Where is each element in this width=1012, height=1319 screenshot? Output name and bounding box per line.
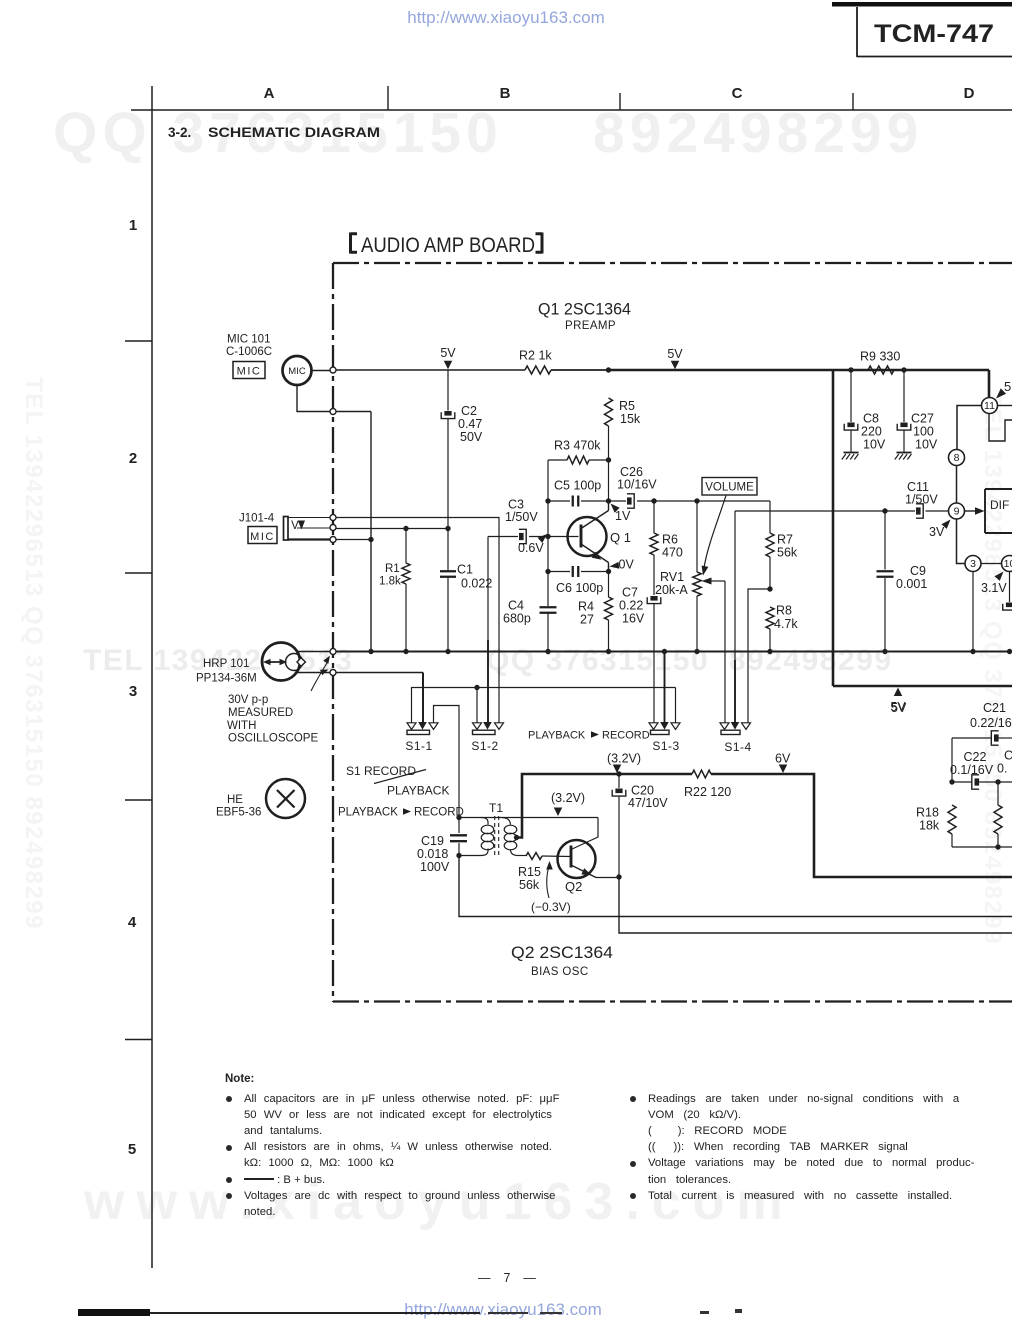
svg-text:C1: C1 [457,563,473,577]
svg-text:2: 2 [129,450,137,467]
svg-text:R22 120: R22 120 [684,785,731,799]
capacitor C27 (electrolytic) [903,370,905,422]
svg-text:(3.2V): (3.2V) [607,752,641,766]
svg-text:R7: R7 [777,533,793,547]
svg-text:MIC: MIC [237,366,262,378]
wire 5V rail from mic node to R2 [333,369,525,371]
junction bus/ground leg [368,649,373,654]
watermark QQ middle [486,644,893,678]
svg-text:0.1/16V: 0.1/16V [950,763,994,777]
connector pin 8 [949,450,965,466]
svg-text:1/50V: 1/50V [905,493,938,507]
capacitor C20 (electrolytic) [618,774,620,788]
svg-text:MIC: MIC [288,366,306,377]
resistor R15 [518,855,526,857]
svg-text:RV1: RV1 [660,570,684,584]
svg-text:Q1 2SC1364: Q1 2SC1364 [538,300,631,319]
svg-text:0V: 0V [619,558,635,572]
svg-text:MIC 101: MIC 101 [227,334,270,346]
svg-text:3: 3 [970,558,976,570]
svg-text:Q2 2SC1364: Q2 2SC1364 [511,943,613,962]
svg-text:3V: 3V [929,525,945,539]
wire C20 bottom rail [619,877,1012,933]
svg-text:S1-3: S1-3 [652,739,679,753]
svg-text:AUDIO AMP BOARD: AUDIO AMP BOARD [361,234,535,257]
capacitor C11 (electrolytic) [885,510,915,512]
svg-text:220: 220 [861,425,882,439]
microphone MIC101 symbol [283,356,312,385]
junction bus/pin3 [970,649,975,654]
svg-text:16V: 16V [622,612,645,626]
jack J101-4 symbol [284,517,289,541]
RV1 wiper arrow [702,578,712,585]
svg-text:15k: 15k [620,412,641,426]
svg-text:3: 3 [129,683,137,700]
label box MIC (mic101) [233,362,265,379]
svg-text:V: V [291,520,299,532]
svg-text:56k: 56k [519,878,540,892]
ruler tick A/B [387,86,389,110]
wire ground leg x371 [370,412,372,652]
junction C6 left [545,569,550,574]
svg-text:0.6V: 0.6V [518,541,544,555]
wire jack sleeve to ground leg [336,539,371,541]
blue url bottom [404,1300,601,1319]
wire base bias leg x548 [547,460,549,606]
svg-text:5V: 5V [891,701,907,715]
svg-text:1V: 1V [615,509,631,523]
svg-text:C22: C22 [964,750,987,764]
svg-text:R18: R18 [916,806,939,820]
watermark QQ numbers top right part [593,100,923,166]
junction bus/C4 [545,649,550,654]
leader 30V p-p [311,663,327,691]
connector pin 10 [1002,556,1012,572]
junction bus/C9 [882,649,887,654]
svg-text:4: 4 [128,914,137,931]
wire R8 junction to S1-4 right [748,589,770,723]
wire pin9 to pin3 [957,519,966,564]
wire mic return into board to x371 [336,411,371,413]
svg-text:Q 1: Q 1 [610,530,631,545]
earphone HRP101 symbol [262,643,300,681]
wire S1-3 right stem [675,688,677,723]
capacitor C19 [458,818,460,834]
ruler tick row2/3 [125,572,152,574]
svg-text:50V: 50V [460,430,483,444]
svg-text:11: 11 [984,400,995,412]
wire pin3 to bus [972,572,974,652]
capacitor C26 (electrolytic) [609,500,627,502]
junction C9 top [882,508,887,513]
wire B+ 3.2V heavy from tap [517,774,693,838]
svg-text:RECORD: RECORD [414,807,464,819]
junction playback net / S1-2 left [474,685,479,690]
resistor R4 [605,597,613,620]
capacitor C24 partial at edge [1009,572,1011,603]
svg-text:C9: C9 [910,564,926,578]
capacitor C5 [547,500,549,502]
ground symbol C27 [897,452,912,454]
junction C5 left [545,498,550,503]
junction C19 bottom / T1 primary bottom [456,853,461,858]
junction C2 bottom / C1 top [445,526,450,531]
wire jack ring bus [336,528,448,530]
svg-text:5: 5 [1004,379,1011,394]
svg-text:HE: HE [227,794,243,806]
capacitor C22 (electrolytic) [952,781,972,783]
svg-text:PLAYBACK: PLAYBACK [338,807,398,819]
junction emitter/C6 [606,569,611,574]
svg-text:(−0.3V): (−0.3V) [531,900,571,914]
resistor R3 [548,459,567,461]
svg-text:1/50V: 1/50V [505,510,538,524]
svg-text:R8: R8 [776,604,792,618]
wire rail corner to pin11 [988,370,991,398]
svg-text:D: D [964,85,975,102]
junction C26/R6 node [651,498,656,503]
svg-text:27: 27 [580,613,594,627]
svg-text:470: 470 [662,546,683,560]
svg-text:B: B [500,85,511,102]
ruler tick row3/4 [125,799,152,801]
svg-text:56k: 56k [777,546,798,560]
label 5V up arrow at B+ line [894,688,903,697]
wire heavy 6V corner [711,774,1012,877]
junction C20 top [616,771,621,776]
svg-text:A: A [264,85,275,102]
svg-text:100V: 100V [420,860,450,874]
wire S1-1 right to C19 [434,706,460,818]
ground bus (heavy) [336,651,1012,653]
svg-text:C8: C8 [863,412,879,426]
wire emitter down [608,566,610,598]
svg-text:(3.2V): (3.2V) [551,791,585,805]
svg-text:8: 8 [954,452,960,464]
potentiometer RV1 [696,501,698,572]
wire C21 corner down [951,738,953,782]
wire jack tip lead [288,517,330,519]
svg-text:30V p-p: 30V p-p [228,694,268,706]
page number [478,1271,538,1285]
ruler tick row4/5 [125,1039,152,1041]
svg-text:18k: 18k [919,819,940,833]
transformer T1 secondary winding [502,818,511,825]
wire jack ring lead [297,527,330,529]
svg-text:Q2: Q2 [565,879,582,894]
svg-text:C: C [732,85,743,102]
audio amp board outline bottom edge [333,1000,1012,1002]
svg-text:0.: 0. [997,762,1007,776]
ruler horizontal line [131,109,1012,111]
junction C19 top / T1 primary top [456,815,461,820]
resistor R7 [769,501,771,533]
junction R1 top [403,526,408,531]
blue url top [407,8,604,28]
wire mic return down [297,385,330,412]
model number box TCM-747 [856,7,858,57]
junction base node [545,534,550,539]
junction bus/R4 [606,649,611,654]
svg-text:T1: T1 [489,801,503,815]
svg-text:100: 100 [913,425,934,439]
wire pin3 to pin10 [981,563,1002,565]
wire R18 bottom rail [952,846,1012,848]
svg-text:PREAMP: PREAMP [565,320,616,332]
wire base to Q1 [548,536,579,538]
transistor Q2 [558,840,596,878]
resistor R5 [605,398,613,426]
capacitor C21 (electrolytic) [952,737,991,739]
svg-text:R2 1k: R2 1k [519,349,552,363]
capacitor C2 (electrolytic) [447,370,449,411]
svg-text:R6: R6 [662,533,678,547]
lamp HE EBF5-36 symbol [266,779,305,818]
wire mic to board edge [312,370,331,372]
svg-text:R4: R4 [578,600,594,614]
node jack sleeve (board edge) [330,537,336,543]
connector pin 9 [949,503,965,519]
svg-text:BIAS OSC: BIAS OSC [531,966,589,978]
svg-text:SCHEMATIC DIAGRAM: SCHEMATIC DIAGRAM [208,125,380,140]
wire rail R2 to R5 node [551,369,609,371]
wire S1-2 mid stem to C3 [487,537,489,641]
svg-text:3-2.: 3-2. [168,125,191,140]
svg-text:S1-2: S1-2 [471,739,498,753]
wire pin11 lower connector path [989,414,1012,442]
wire B+ heavy vertical x833 [832,370,835,686]
svg-text:20k-A: 20k-A [655,583,688,597]
svg-text:MIC: MIC [250,531,275,543]
junction bus/S1-3 mid [662,649,667,654]
switch S1-4 [720,723,729,730]
junction C22 left [949,779,954,784]
svg-text:C21: C21 [983,701,1006,715]
wire jack tip to S1-2 right [336,518,499,723]
junction bus/R1 [403,649,408,654]
svg-text:C: C [1004,749,1012,763]
svg-text:5: 5 [128,1141,136,1158]
svg-text:S1-1: S1-1 [405,739,432,753]
svg-text:47/10V: 47/10V [628,796,668,810]
resistor R8 [766,607,774,629]
wire C19 bottom to lower rail [459,856,1012,917]
capacitor C9 [884,511,886,570]
wire wiper to S1-4 left [724,581,726,723]
svg-text:5V: 5V [440,346,456,360]
transistor Q1 [568,517,607,556]
capacitor C4 [540,606,557,608]
wire T1 secondary to Q2 collector [571,818,598,850]
svg-text:0.22: 0.22 [619,599,643,613]
capacitor C3 (electrolytic) [488,536,518,538]
node jack ring (board edge) [330,525,336,531]
svg-text:DIF: DIF [990,498,1009,512]
watermark www bottom [84,1172,795,1232]
svg-text:0.001: 0.001 [896,577,927,591]
wire S1-2 left stem [476,688,478,723]
svg-text:R5: R5 [619,399,635,413]
audio amp board outline top edge [333,262,1012,264]
switch S1-1 [407,723,416,730]
wire S1-1 left to playback net [412,688,676,723]
wire jack sleeve lead [288,538,330,540]
ruler vertical border line [151,86,153,1268]
svg-text:R15: R15 [518,865,541,879]
svg-text:C6 100p: C6 100p [556,581,603,595]
svg-text:R1: R1 [385,563,400,575]
resistor R6 [650,533,658,555]
svg-text:MEASURED: MEASURED [228,707,293,719]
svg-text:10/16V: 10/16V [617,478,657,492]
svg-text:PLAYBACK: PLAYBACK [528,730,586,742]
svg-text:5V: 5V [667,347,683,361]
transformer T1 core [494,816,496,857]
junction bus/C24 [1007,649,1012,654]
resistor R1 [402,563,410,584]
svg-text:PP134-36M: PP134-36M [196,673,257,685]
capacitor C7 (electrolytic) [650,596,657,601]
svg-text:C5 100p: C5 100p [554,479,601,493]
node HRP top (board edge) [330,649,336,655]
svg-text:C27: C27 [911,412,934,426]
junction C26/RV1 node [694,498,699,503]
svg-text:10V: 10V [915,438,938,452]
connector pin 3 [965,556,981,572]
bottom scan bar [78,1309,150,1316]
wire B+ rail R5 node to corner (heavy) [609,369,990,372]
label box VOLUME [702,478,757,496]
ruler tick row1/2 [125,340,152,342]
resistor R2 on rail [525,366,551,374]
junction T1 tap [514,835,519,840]
wire S1-3 mid stem [664,652,666,724]
svg-text:S1 RECORD: S1 RECORD [346,764,416,778]
leader -0.3V arrow [547,866,549,898]
svg-text:C7: C7 [622,586,638,600]
svg-text:WITH: WITH [227,720,256,732]
node HRP bottom (board edge) [330,670,336,676]
junction R19 bottom [995,844,1000,849]
switch S1-2 [473,723,482,730]
svg-text:3.1V: 3.1V [981,581,1007,595]
svg-text:0.018: 0.018 [417,847,448,861]
svg-text:S1-4: S1-4 [724,740,751,754]
wire pin8 to pin9 [956,466,958,504]
svg-text:TCM-747: TCM-747 [874,20,994,48]
wire HRP top to bus edge [297,651,331,653]
node jack tip (board edge) [330,515,336,521]
ground symbol C8 [844,452,859,454]
junction R3 right [606,457,611,462]
wire pin9 to DIF box with arrow [965,510,977,512]
label box MIC (jack) [248,527,277,544]
svg-text:9: 9 [954,506,960,518]
wire playback signal to pin9 [735,510,885,512]
capacitor C6 [548,571,570,573]
wire T1 top rail [459,817,598,819]
capacitor C1 [447,529,449,571]
transformer T1 primary winding [481,818,488,825]
node mic out (board edge) [330,367,336,373]
watermark QQ numbers top left part [53,100,503,166]
board title AUDIO AMP BOARD [351,233,358,254]
wire Q2 emitter to C20 line [596,877,619,879]
svg-text:HRP 101: HRP 101 [203,658,249,670]
svg-text:PLAYBACK: PLAYBACK [387,784,449,798]
svg-text:680p: 680p [503,612,531,626]
wire S1-4 mid stem up to pin9 net [734,511,736,660]
junction bus/RV1 [694,649,699,654]
svg-text:J101-4: J101-4 [239,513,275,525]
audio amp board outline left edge [332,263,334,1002]
ruler tick B/C [619,93,621,110]
watermark TEL vertical left [19,377,47,917]
resistor R9 on rail [868,366,894,374]
svg-text:R3 470k: R3 470k [554,439,601,453]
junction rail/R5 [606,367,611,372]
wire pin11 to pin8/pin9 leg [957,406,982,450]
watermark TEL middle [83,644,353,678]
wire B+ heavy horizontal y686 [833,685,1012,688]
svg-text:C-1006C: C-1006C [226,346,272,358]
junction C23 stem [995,779,1000,784]
svg-text:RECORD: RECORD [602,730,650,742]
watermark TEL vertical right [978,392,1006,932]
svg-text:0.47: 0.47 [458,417,482,431]
connector pin 11 [982,398,998,414]
wire HRP bottom to edge [295,672,330,674]
switch S1-3 [649,723,658,730]
resistor R19 partial [997,782,999,805]
junction rail/C8 [848,367,853,372]
ruler tick C/D [852,93,854,110]
svg-text:10: 10 [1004,558,1012,570]
leader volume box to RV1 [704,496,726,569]
wire HRP bottom to S1-1 mid [336,672,423,674]
svg-text:4.7k: 4.7k [774,617,798,631]
svg-text:C19: C19 [421,834,444,848]
block DIF amp (cut at page edge) [985,489,1012,533]
svg-text:6V: 6V [775,752,791,766]
svg-text:1: 1 [129,217,137,234]
resistor R18 [948,805,956,834]
svg-text:1.8k: 1.8k [379,576,401,588]
wire R5 to collector node [608,426,610,501]
junction bus/C1 [445,649,450,654]
page top black bar [832,2,1012,7]
resistor R22 on heavy line [692,770,711,778]
svg-text:VOLUME: VOLUME [705,482,754,494]
wire pin11 right stub [998,405,1012,407]
junction R7/R8 node [767,586,772,591]
capacitor C8 (electrolytic) [850,370,852,422]
junction emitter/C20 [616,874,621,879]
junction bus/R8 [767,649,772,654]
svg-text:10V: 10V [863,438,886,452]
svg-text:0.22/16: 0.22/16 [970,716,1012,730]
svg-text:R9 330: R9 330 [860,350,900,364]
svg-text:C2: C2 [461,404,477,418]
svg-text:EBF5-36: EBF5-36 [216,807,261,819]
junction collector node [606,498,611,503]
node mic return (board edge) [330,409,336,415]
junction sleeve/ground leg [368,537,373,542]
notes text [225,1073,254,1085]
junction rail/C27 [901,367,906,372]
svg-text:OSCILLOSCOPE: OSCILLOSCOPE [228,733,318,745]
svg-text:C4: C4 [508,599,524,613]
